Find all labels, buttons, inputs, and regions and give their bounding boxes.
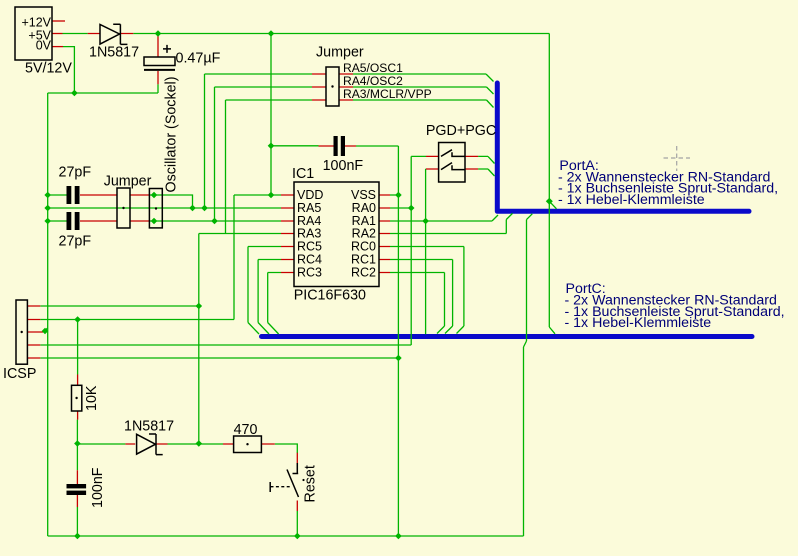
wire ICSP row4 [40, 344, 411, 346]
node diode row left junction [74, 440, 81, 447]
svg-text:RC1: RC1 [351, 253, 376, 267]
wire RA1/PGC net [390, 169, 498, 334]
wire ICSP row1 [40, 305, 199, 307]
pin stubs capacitor C1 0.47uF [157, 34, 159, 84]
svg-text:470: 470 [234, 422, 258, 438]
pin stubs jumper JP2 right [339, 74, 353, 100]
node left rail row221 [44, 218, 51, 225]
svg-text:RC0: RC0 [351, 240, 376, 254]
node MCLR/ICSP1 junction [196, 303, 203, 310]
pin stubs 27pF row bottom [80, 220, 149, 222]
svg-text:PGD+PGC: PGD+PGC [426, 123, 496, 139]
jumper JP1 [117, 188, 130, 228]
pin stub +12V [52, 20, 65, 22]
wire GND vertical x=398.4 from 100nF to rail [397, 146, 399, 536]
svg-text:1N5817: 1N5817 [124, 419, 174, 435]
wire jumper right rows to PortA bus [353, 74, 494, 108]
node +5V/0.47uF junction [155, 30, 162, 37]
wire RC3 to PortC bus left end [268, 273, 281, 335]
wire +5V right column x=548 down to PortC [549, 34, 556, 334]
wire oscillator middle row / RA5 row y=208 [48, 207, 281, 209]
svg-text:RA5/OSC1: RA5/OSC1 [343, 61, 403, 75]
wire 100nF right to GND vertical [356, 145, 398, 147]
wire left ground rail x=47.7 [47, 93, 49, 536]
pin stubs jumper JP2 left [312, 74, 326, 100]
oscillator socket Q1 [149, 189, 162, 228]
wire jumper row2 y=87 [215, 87, 313, 221]
svg-text:- 1x Hebel-Klemmleiste: - 1x Hebel-Klemmleiste [565, 315, 712, 331]
reset switch S2 [287, 463, 299, 497]
pin stubs IC1 right [379, 195, 390, 273]
svg-text:RC3: RC3 [297, 266, 322, 280]
node RA1 junction [422, 218, 429, 225]
pin stub +5V [52, 33, 63, 35]
svg-text:27pF: 27pF [59, 234, 92, 250]
wire RC1 to PortC bus [390, 260, 453, 334]
pin stubs diode D2 1N5817 [125, 443, 167, 445]
wire +5V riser to VDD x=271 [270, 34, 272, 196]
pin stubs ICSP connector [27, 306, 43, 358]
node reset/rail junction [294, 533, 301, 540]
wire 27pF top row left [48, 194, 68, 196]
node +5V/VDD riser junction [268, 30, 275, 37]
node rail 100nF junction [74, 533, 81, 540]
resistor R1 10K [72, 385, 82, 411]
svg-text:RA2: RA2 [352, 227, 376, 241]
wire MCLR vertical x=198.8 [198, 234, 200, 444]
svg-text:RA0: RA0 [352, 201, 376, 215]
wire 10K bottom to diode row [76, 420, 78, 471]
wire jumper row3 y=100 (MCLR) [226, 100, 313, 234]
svg-text:ICSP: ICSP [3, 366, 36, 382]
wire bottom ground rail y=536 [48, 535, 524, 537]
wire RC5 to PortC bus left end [248, 247, 281, 335]
wire 0V from connector [63, 47, 74, 93]
pin stubs capacitor 100nF top [319, 145, 357, 147]
wire jumper row1 y=74 [205, 74, 313, 208]
wire 0.47uF bottom to ground row [157, 84, 159, 93]
pin stubs capacitor 100nF bottom [76, 470, 78, 507]
IC1 PIC16F630 body [294, 182, 379, 287]
wire ICSP row5 to GND vertical [40, 357, 398, 359]
wire 470 to reset switch [275, 444, 298, 453]
svg-text:PIC16F630: PIC16F630 [294, 288, 366, 304]
wire VSS pin to GND vertical [390, 194, 398, 196]
node 0V corner junction [71, 90, 78, 97]
node RA5 row junction [201, 205, 208, 212]
wire 100nF left branch [271, 145, 319, 147]
svg-text:Reset: Reset [303, 465, 319, 502]
switch S1 PGD+PGC body [439, 143, 465, 183]
node left rail row208 [44, 205, 51, 212]
power connector X1 5V/12V [15, 7, 52, 60]
svg-text:0V: 0V [36, 38, 52, 52]
node MCLR/diode row junction [196, 440, 203, 447]
svg-text:RA4/OSC2: RA4/OSC2 [343, 74, 403, 88]
svg-text:1N5817: 1N5817 [89, 45, 139, 61]
wire RA2 row to PortA bus [390, 213, 513, 233]
wire reset switch bottom to rail [296, 511, 298, 536]
pin stubs reset switch [296, 453, 298, 511]
svg-text:RA3: RA3 [297, 227, 321, 241]
node RA0 junction [408, 205, 415, 212]
wire RA4 row from oscillator to IC [149, 220, 281, 222]
svg-text:RC2: RC2 [351, 266, 376, 280]
wire RC4 to PortC bus left end [258, 260, 281, 335]
svg-text:- 1x Hebel-Klemmleiste: - 1x Hebel-Klemmleiste [558, 192, 705, 208]
svg-text:IC1: IC1 [292, 166, 314, 182]
wire reset diode row y=444 [77, 443, 223, 445]
svg-text:RC5: RC5 [297, 240, 322, 254]
PortC bus (thick blue) [262, 334, 753, 339]
wire VDD row into IC [234, 194, 281, 196]
capacitor C2 27pF top [67, 186, 72, 204]
node +5V column/PortA junction [546, 198, 553, 205]
node oscillator pin bottom [151, 218, 158, 225]
node GND/rail junction [395, 533, 402, 540]
wire RC0 to PortC bus [390, 247, 464, 334]
svg-text:Jumper: Jumper [104, 174, 152, 190]
svg-text:+12V: +12V [21, 15, 51, 29]
svg-text:Jumper: Jumper [316, 45, 364, 61]
wire PortA bus drop x=526.5 to PortC bus [527, 214, 533, 341]
svg-text:100nF: 100nF [90, 467, 106, 508]
capacitor C5 100nF bottom [67, 484, 87, 488]
pin stubs resistor 470 [223, 443, 275, 445]
wire VDD riser x=234 to ICSP row2 [233, 195, 235, 320]
wire RA0/PGD net [390, 156, 426, 345]
capacitor C1 0.47uF electrolytic [144, 57, 175, 66]
svg-text:10K: 10K [84, 385, 100, 411]
wire ground row y=93 [48, 92, 158, 94]
capacitor C3 27pF bottom [67, 212, 72, 230]
node VSS junction [395, 192, 402, 199]
wire +5V rail from diode to right column [63, 33, 550, 35]
wire 10K top riser [77, 320, 79, 375]
pin stubs diode D1 [88, 33, 134, 35]
node 100nF left junction [268, 143, 275, 150]
svg-text:27pF: 27pF [59, 165, 92, 181]
pin stubs 27pF row top [80, 194, 149, 196]
node left rail row195 [44, 192, 51, 199]
svg-text:VDD: VDD [297, 188, 323, 202]
svg-text:Oscillator (Sockel): Oscillator (Sockel) [164, 77, 180, 193]
wire ICSP row3 stub to left rail [43, 328, 48, 332]
node oscillator pin top [151, 192, 158, 199]
svg-text:VSS: VSS [351, 188, 376, 202]
node step row208 junction [189, 205, 196, 212]
svg-text:RA3/MCLR/VPP: RA3/MCLR/VPP [343, 87, 432, 101]
pin stubs IC1 left [281, 195, 294, 273]
svg-text:0.47µF: 0.47µF [176, 51, 221, 67]
wire oscillator top row to step [149, 195, 193, 208]
capacitor C4 100nF [334, 136, 338, 156]
wire PGD pin right to PortA bus [478, 156, 494, 163]
node 10K top junction [74, 316, 81, 323]
resistor R2 470 [234, 436, 262, 453]
wire 100nF2 bottom to rail [76, 507, 78, 536]
mouse crosshair cursor [664, 146, 691, 171]
node GND/ICSP5 junction [395, 355, 402, 362]
node ICSP gnd chamfer [42, 328, 49, 335]
wire ICSP row2 [40, 319, 234, 321]
svg-text:100nF: 100nF [323, 158, 364, 174]
diode D1 1N5817 [100, 24, 127, 44]
svg-text:RA5: RA5 [297, 201, 321, 215]
wire ground riser x=525 rail to PortC [524, 341, 527, 536]
node VDD row junction [268, 192, 275, 199]
wire RA3/MCLR row [199, 233, 281, 235]
ICSP connector X2 [16, 300, 27, 364]
PortA bus (thick blue) [497, 83, 749, 211]
pin stubs resistor 10K [77, 375, 79, 420]
jumper JP2 [326, 67, 339, 106]
svg-text:RC4: RC4 [297, 253, 322, 267]
pin stub 0V [52, 46, 63, 48]
wire RC2 to PortC bus [390, 273, 445, 334]
diode D2 1N5817 [137, 434, 163, 455]
pin stubs PGD+PGC switch [426, 156, 478, 169]
node RA4 row junction [211, 218, 218, 225]
wire PGC pin right to PortA bus [478, 169, 494, 176]
svg-text:5V/12V: 5V/12V [25, 60, 72, 76]
wire 27pF bottom row left [48, 220, 68, 222]
